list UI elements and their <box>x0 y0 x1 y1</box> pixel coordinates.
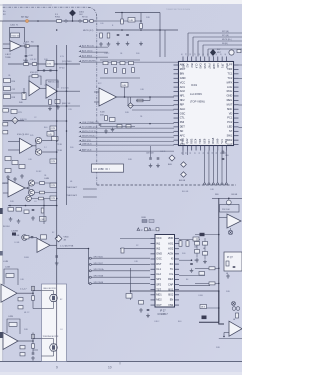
op-amp IC704 <box>8 179 25 197</box>
wire to motor box lower2 <box>33 349 38 351</box>
svg-text:MD2: MD2 <box>156 298 162 302</box>
svg-text:R2: R2 <box>136 245 138 247</box>
resistor R705 <box>32 63 36 66</box>
resistor R722 vert <box>100 33 103 38</box>
svg-text:B40 4B: B40 4B <box>182 191 189 193</box>
capacitor C715 pair <box>32 334 35 339</box>
svg-text:LH 2X9N: LH 2X9N <box>190 92 202 96</box>
component boxes under IC703 <box>5 157 11 161</box>
warning box 2 <box>156 228 159 231</box>
junction y30 <box>121 29 123 31</box>
IP27 right pins <box>175 238 180 240</box>
bus wire top-right 3 <box>198 40 242 42</box>
svg-text:REG: REG <box>227 98 233 102</box>
feedback box IC707 <box>220 205 240 213</box>
SPK branch 4 circle <box>89 276 91 278</box>
svg-text:SC4: SC4 <box>194 138 198 144</box>
svg-text:IC4B: IC4B <box>100 112 105 114</box>
dark component jack <box>200 233 205 236</box>
svg-text:PC1: PC1 <box>227 116 233 120</box>
svg-text:OSC: OSC <box>180 111 186 115</box>
resistor R718 <box>16 208 22 212</box>
feedback wire IC702b <box>46 80 58 88</box>
cluster boxes lower left of IC707 <box>195 242 200 246</box>
wire row y70 <box>38 70 57 72</box>
capacitor C725 <box>99 123 102 125</box>
svg-text:C40B: C40B <box>198 295 203 297</box>
vertical bus x66 <box>66 45 68 205</box>
tag box C7B-2 <box>50 159 57 163</box>
svg-text:LED: LED <box>227 125 232 129</box>
SPK branch 5 circle <box>89 283 91 285</box>
op-amp IC702b <box>46 84 57 98</box>
wire diode to rail <box>72 16 74 21</box>
ground g9 <box>105 129 107 131</box>
svg-text:C4: C4 <box>60 329 62 331</box>
wire verticals to IC top area <box>159 13 161 58</box>
motor M702 <box>50 344 58 352</box>
svg-text:VCC: VCC <box>156 236 162 240</box>
svg-text:IC40 (2): IC40 (2) <box>30 72 38 74</box>
ground IPQ7 <box>227 274 229 276</box>
op-amp IC703 <box>20 138 33 153</box>
svg-text:C44B: C44B <box>44 178 50 180</box>
svg-text:QA2: QA2 <box>185 138 189 144</box>
svg-text:C4B: C4B <box>122 85 127 87</box>
wire y121 left <box>3 120 67 122</box>
svg-text:MPX: MPX <box>227 80 233 84</box>
svg-text:AO2: AO2 <box>180 89 186 93</box>
signal tag AUX3 <box>79 55 82 57</box>
ground under C704 <box>25 59 27 61</box>
svg-text:14: 14 <box>194 152 196 154</box>
diamond VR704 <box>181 162 187 168</box>
motor enclosure box <box>42 284 67 362</box>
transistor Q704 <box>29 190 35 196</box>
wire input- IC701a <box>3 48 10 50</box>
wire diode drop <box>212 55 214 58</box>
svg-text:SP1: SP1 <box>156 277 161 281</box>
wires DIP right side <box>179 239 200 241</box>
wire IC705 to SPK bus <box>57 248 89 250</box>
wire to motor box <box>33 290 42 292</box>
resistor R708 <box>4 95 11 99</box>
svg-text:GND: GND <box>156 252 162 256</box>
svg-text:C4 4B: C4 4B <box>14 235 20 237</box>
wire input IC707 <box>219 217 227 219</box>
below DIP components <box>139 301 144 305</box>
left page edge white strip <box>0 0 3 375</box>
junction dots on buses <box>56 90 58 92</box>
svg-text:C401 71: C401 71 <box>10 25 19 27</box>
capacitor C720 <box>149 157 152 159</box>
wires tags to IC left pins <box>125 123 174 125</box>
transistor Q703 <box>29 180 35 186</box>
svg-text:35: 35 <box>203 53 205 55</box>
component boxes IC706a <box>18 298 23 301</box>
bus wire top-right 2 <box>193 36 242 38</box>
svg-text:L.BOT: L.BOT <box>5 54 12 56</box>
svg-text:EN: EN <box>170 298 174 302</box>
top page edge white strip <box>0 0 242 4</box>
IC01 bottom pins <box>182 146 184 151</box>
capacitor C707 <box>3 123 8 126</box>
track act wire 2 <box>83 196 97 198</box>
svg-text:CL4: CL4 <box>194 64 198 69</box>
svg-text:GND: GND <box>180 76 186 80</box>
svg-text:ZK2: ZK2 <box>224 138 228 143</box>
svg-text:TP 702: TP 702 <box>21 17 29 19</box>
dashed separation line horizontal <box>97 184 236 186</box>
wires cluster <box>196 238 198 242</box>
svg-text:AO2: AO2 <box>168 246 174 250</box>
warning triangle 1 <box>137 228 140 231</box>
wire row y64 <box>8 63 57 65</box>
svg-text:C7B: C7B <box>51 161 56 163</box>
capacitor C717 <box>117 33 120 35</box>
bottom margin strip <box>0 362 242 375</box>
svg-text:RB3: RB3 <box>189 138 193 144</box>
resistor R723 vert <box>107 33 110 38</box>
wire y110 to IC <box>132 109 174 111</box>
resistor R731 vert <box>226 261 229 266</box>
svg-text:MUTE (B+): MUTE (B+) <box>222 39 232 41</box>
capacitor C726 <box>190 262 193 264</box>
transistor X syms above IC708 <box>232 302 236 306</box>
junction J2 open <box>79 20 81 22</box>
svg-text:JP1: JP1 <box>220 64 224 69</box>
svg-text:R40: R40 <box>70 147 73 149</box>
thick wire bottom-right L <box>199 291 224 324</box>
svg-text:CAP: CAP <box>168 282 174 286</box>
svg-text:AFC: AFC <box>180 133 185 137</box>
svg-text:R9 C6: R9 C6 <box>82 17 89 19</box>
op-amp IC702a <box>29 81 40 96</box>
capacitor C723 right <box>222 157 225 159</box>
resistor R727 below <box>105 116 108 121</box>
svg-text:IP Q7: IP Q7 <box>227 257 234 259</box>
wire y106 to IC <box>128 105 174 107</box>
warning triangle 2 <box>149 228 152 231</box>
edge mark 3 <box>0 332 3 338</box>
wire row y205 <box>8 205 57 207</box>
resistors vert row <box>105 69 108 74</box>
ground g5 <box>18 219 20 221</box>
capacitor C727 below DIP <box>147 308 150 310</box>
svg-text:SP2: SP2 <box>156 282 161 286</box>
signal tag AUX1 <box>79 45 82 47</box>
capacitor C709 box <box>47 132 54 137</box>
svg-text:C4B 4B: C4B 4B <box>231 194 238 196</box>
resistor R706 <box>4 79 11 83</box>
tag box C7B-1 <box>50 126 57 130</box>
svg-text:TRACK ACT: TRACK ACT <box>66 186 78 189</box>
resistor R733 <box>209 282 215 285</box>
wire y198 top <box>212 197 242 199</box>
component box B2 <box>110 118 116 122</box>
wire output IC704 <box>25 187 29 189</box>
svg-text:R45: R45 <box>30 135 33 137</box>
svg-text:PC2: PC2 <box>227 120 233 124</box>
track act wire 1 <box>83 188 97 190</box>
wire y101 to IC <box>136 100 150 102</box>
wire y275 right <box>179 275 205 277</box>
vertical bus x57 over motor box <box>56 284 58 361</box>
wire y12 top <box>115 12 160 14</box>
svg-text:REF: REF <box>168 277 174 281</box>
svg-text:13: 13 <box>190 152 192 154</box>
right edge wires from QFP <box>239 64 243 66</box>
wire y106 right segment <box>57 105 80 107</box>
diamond VR703 <box>169 155 175 161</box>
wire Q706 out <box>27 237 37 239</box>
ruler tick 9 <box>57 362 59 375</box>
svg-text:RCH: RCH <box>227 89 233 93</box>
trimmer cap CT701 <box>226 200 231 205</box>
svg-text:R701: R701 <box>55 17 61 19</box>
svg-text:VD1: VD1 <box>181 64 185 70</box>
vertical bus x219 <box>218 198 220 322</box>
svg-text:AO1: AO1 <box>168 241 174 245</box>
signal tag SEARCH <box>79 135 82 137</box>
svg-text:CX20B17: CX20B17 <box>158 313 169 316</box>
wire y234 <box>195 234 219 236</box>
vertical bus x38 upper <box>37 46 39 64</box>
wire output IC703 <box>33 145 37 147</box>
dash-dot border corner arc <box>88 7 97 17</box>
svg-text:C4B 2: C4B 2 <box>154 321 159 323</box>
signal tag REC <box>79 140 82 142</box>
svg-text:LCH: LCH <box>227 85 232 89</box>
capacitor C716 <box>32 352 35 354</box>
svg-text:GND: GND <box>227 94 233 98</box>
svg-text:CL1: CL1 <box>156 267 161 271</box>
component box right of DIP <box>193 237 199 241</box>
svg-text:2.2: 2.2 <box>44 147 47 149</box>
svg-text:C40 B: C40 B <box>160 151 166 153</box>
svg-text:OSC: OSC <box>156 257 162 261</box>
tag box C7B-3 <box>50 183 57 187</box>
wire B+ rail <box>0 20 97 22</box>
svg-text:NF1: NF1 <box>180 94 185 98</box>
wire y21 right <box>97 20 141 22</box>
signal tag AUX2 <box>79 50 82 52</box>
IC01 outside pin numbers top <box>181 53 227 55</box>
svg-text:22K 10K: 22K 10K <box>222 209 230 211</box>
ground g11 <box>196 258 198 260</box>
wire y60 <box>100 59 140 61</box>
svg-text:R40: R40 <box>136 53 139 55</box>
component box y272 <box>199 272 205 276</box>
box DX2069 <box>92 164 124 172</box>
dark component 2 <box>202 316 207 320</box>
feedback resistor R709 <box>32 75 38 78</box>
wire y285 right <box>179 285 210 287</box>
svg-text:R40B: R40B <box>24 257 29 259</box>
component box under IC702b <box>55 100 60 104</box>
junction J1 open <box>65 20 67 22</box>
transistor X syms below IC707 <box>228 230 232 234</box>
capacitor C704 vertical <box>25 54 28 56</box>
svg-text:SP1 (B): SP1 (B) <box>222 35 229 37</box>
left margin border line <box>2 21 4 361</box>
wire Q703 out <box>35 182 57 184</box>
svg-text:TP.45: TP.45 <box>57 144 62 146</box>
wire input+ IC701a <box>3 43 10 45</box>
svg-text:DX 20BF I D I: DX 20BF I D I <box>94 167 110 171</box>
svg-text:34: 34 <box>199 53 201 55</box>
svg-text:IC40 (1) 45.8: IC40 (1) 45.8 <box>17 134 30 136</box>
svg-text:C4 4B: C4 4B <box>14 242 20 244</box>
resistor R707 <box>4 87 11 91</box>
wire inputs IC704 <box>3 182 8 184</box>
svg-text:C4BB: C4BB <box>141 217 146 219</box>
resistor R728 vert <box>121 248 124 253</box>
svg-text:R4B 1B: R4B 1B <box>20 119 27 121</box>
wire inputs IC703 <box>8 141 20 143</box>
IP27 left pins <box>151 238 156 240</box>
bottom ruler border line <box>0 361 242 363</box>
op-amp IC705 <box>37 238 50 252</box>
dark component <box>12 233 16 236</box>
motor M702 wires <box>42 338 54 340</box>
top edge grey line <box>0 4 52 6</box>
svg-text:SP2 (B): SP2 (B) <box>222 31 229 33</box>
component under out <box>32 296 35 301</box>
component under out 2 <box>32 344 35 349</box>
diode D702 <box>210 49 216 56</box>
svg-text:C4B: C4B <box>41 219 46 221</box>
svg-text:AGC: AGC <box>180 107 186 111</box>
component R713 <box>11 110 17 114</box>
wire left feed <box>3 92 24 94</box>
long bus y291 <box>131 290 219 292</box>
svg-text:HI9: HI9 <box>216 64 220 69</box>
diamond VR705 <box>181 172 187 178</box>
SPK bus vertical <box>88 249 90 285</box>
node vertical x38 <box>37 46 39 71</box>
wire output IC706a <box>17 292 33 294</box>
ground g10 <box>112 128 114 130</box>
wire output IC706b <box>18 340 34 342</box>
svg-text:AGN: AGN <box>168 252 174 256</box>
svg-text:TD5: TD5 <box>198 138 202 143</box>
wire y126 <box>100 126 135 128</box>
svg-text:C4B: C4B <box>129 20 134 22</box>
feedback loop IC706a <box>4 269 18 285</box>
svg-text:B2: B2 <box>60 299 62 301</box>
svg-text:SW1: SW1 <box>227 133 233 137</box>
svg-text:XI: XI <box>171 257 174 261</box>
ground g6 <box>32 216 34 218</box>
scatter labels group <box>8 17 230 349</box>
svg-text:VR40: VR40 <box>64 237 70 239</box>
IC01 left pins <box>174 64 179 66</box>
svg-text:B2: B2 <box>52 232 54 234</box>
IC01 outside pin numbers bottom <box>181 152 227 154</box>
capacitor C722 right <box>222 151 225 153</box>
svg-text:R4 B2: R4 B2 <box>36 171 41 173</box>
svg-text:SD: SD <box>180 129 184 133</box>
capacitor C708 <box>3 131 8 134</box>
svg-text:C7B: C7B <box>51 185 56 187</box>
svg-text:TUNER SECTION SCHEM: TUNER SECTION SCHEM <box>166 9 190 11</box>
component boxes IC706b <box>20 346 25 349</box>
wire Q705 to tag <box>31 198 50 200</box>
svg-text:LC4B: LC4B <box>3 261 9 263</box>
op-amp IC701a <box>10 41 22 52</box>
component C719 <box>237 50 241 53</box>
wire output IC705 <box>50 244 57 246</box>
svg-text:30: 30 <box>181 53 183 55</box>
ground below DIP <box>140 308 142 310</box>
crystal X701 circle <box>229 50 234 55</box>
SPK branch 2 circle <box>89 263 91 265</box>
svg-text:C40: C40 <box>100 23 103 25</box>
ground C721 <box>157 164 159 166</box>
svg-text:AI2: AI2 <box>186 64 190 68</box>
resistor R701 <box>57 20 62 23</box>
svg-text:B4: B4 <box>186 279 188 281</box>
vertical bus x57 <box>56 45 58 361</box>
svg-text:RIP: RIP <box>180 102 185 106</box>
wire to motor box lower <box>33 338 42 340</box>
capacitor C721 <box>157 157 160 159</box>
svg-text:MUT: MUT <box>227 102 233 106</box>
wire y78 <box>100 77 140 79</box>
variable resistor VR701 diamond <box>55 235 62 242</box>
resistor R719 vert <box>41 208 44 213</box>
junction dot scatter <box>37 20 39 22</box>
svg-text:IP 27: IP 27 <box>160 310 166 313</box>
bottom page edge strip <box>0 372 242 375</box>
ground R725 <box>140 42 142 44</box>
wire y263 right <box>179 259 192 261</box>
capacitor C728 <box>233 265 236 267</box>
SPK branch 4 wire <box>91 276 150 278</box>
wire DIP lower-left vertical <box>130 268 132 300</box>
transistor Q705 <box>26 196 32 202</box>
capacitor C713 <box>55 255 58 257</box>
components above IC705 <box>24 236 29 239</box>
svg-text:BI3: BI3 <box>190 64 194 68</box>
svg-text:PW1: PW1 <box>181 138 185 144</box>
svg-text:4B C2: 4B C2 <box>24 312 29 314</box>
svg-text:9: 9 <box>56 366 58 370</box>
capacitor C718 <box>126 33 129 35</box>
ground C720 <box>150 164 152 166</box>
box C7xB <box>128 18 135 23</box>
ground g2 <box>14 177 16 179</box>
svg-text:VDD: VDD <box>168 236 174 240</box>
tag box right <box>200 305 207 309</box>
svg-text:C41 B2: C41 B2 <box>30 59 36 61</box>
svg-text:SNС: SNС <box>227 107 233 111</box>
svg-text:WG8: WG8 <box>211 137 215 143</box>
wires QFP bottom-left pins down <box>182 151 184 156</box>
component DX701 <box>46 61 54 67</box>
svg-text:GD8: GD8 <box>212 64 216 70</box>
wire y291 junction <box>218 290 220 292</box>
signal tag ST <box>79 126 82 128</box>
wire under IC708 <box>219 338 242 340</box>
wire output IC701a <box>22 45 39 47</box>
svg-text:1 2.2 (B) TP4B: 1 2.2 (B) TP4B <box>60 246 74 248</box>
svg-text:(9.1) 8V40: (9.1) 8V40 <box>62 61 72 63</box>
svg-text:(TOP VIEW): (TOP VIEW) <box>190 100 205 104</box>
svg-text:C41B: C41B <box>5 267 11 269</box>
component row above IC709 <box>103 62 108 65</box>
